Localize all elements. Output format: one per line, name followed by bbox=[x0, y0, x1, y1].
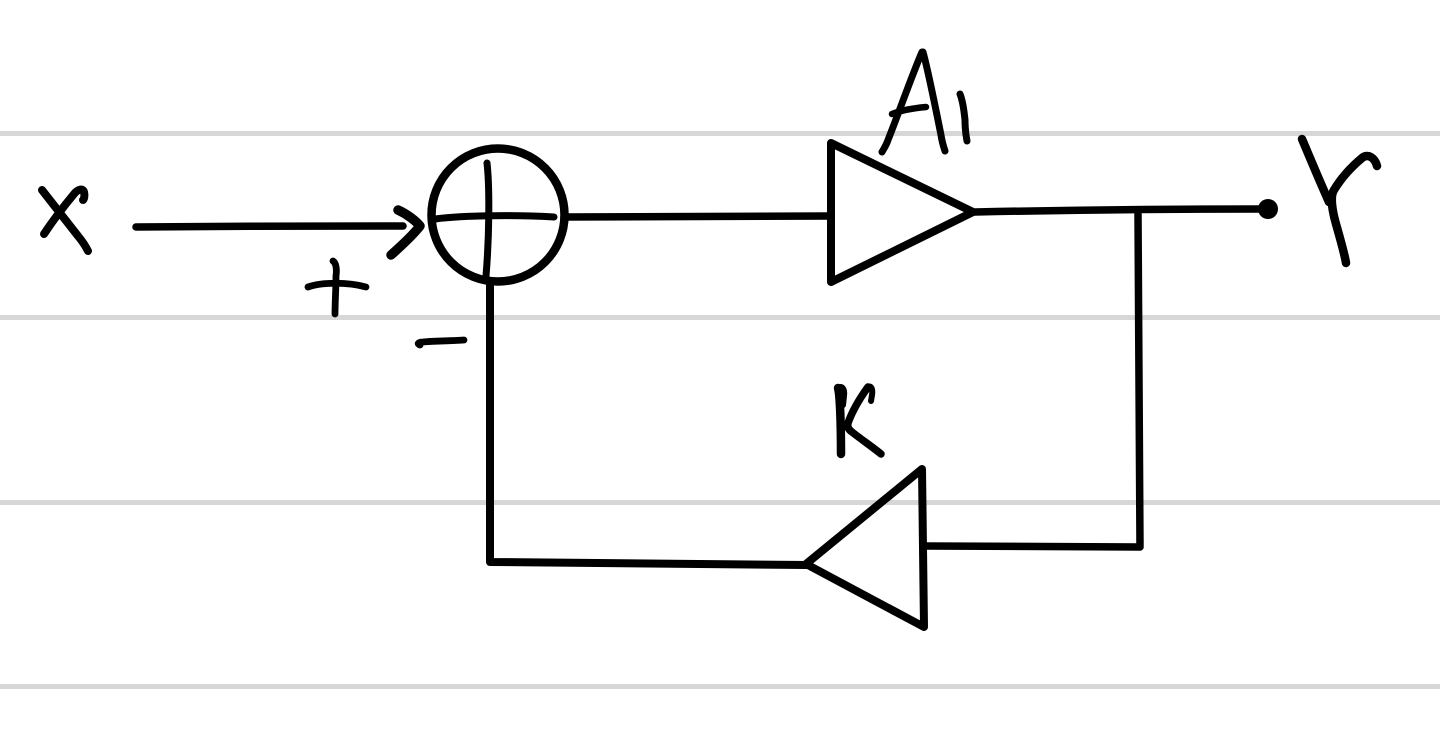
plus strokes inside summing junction bbox=[435, 163, 554, 276]
wire K output to summing junction minus input bbox=[490, 282, 807, 565]
node X label bbox=[42, 190, 88, 251]
wire Y branch down into feedback path bbox=[925, 214, 1140, 547]
label A1 bbox=[882, 52, 967, 152]
node Y label bbox=[1302, 139, 1377, 263]
wire X to summing junction bbox=[136, 226, 403, 227]
plus sign (summing input polarity) bbox=[308, 261, 366, 314]
amplifier A1 triangle bbox=[831, 143, 973, 282]
node Y junction dot bbox=[1258, 199, 1278, 219]
minus sign (feedback polarity) bbox=[418, 340, 464, 345]
label K bbox=[838, 386, 881, 454]
summing junction circle bbox=[432, 149, 565, 282]
wire summing junction to amplifier A1 bbox=[564, 216, 830, 217]
wire A1 output to node Y bbox=[975, 209, 1262, 212]
feedback amplifier K triangle bbox=[806, 469, 924, 627]
arrowhead into summing junction bbox=[391, 210, 420, 255]
